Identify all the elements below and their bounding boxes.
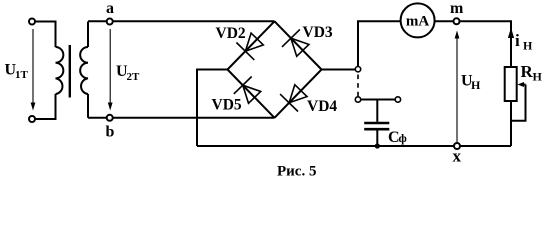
transformer core [69, 45, 71, 98]
U1T arrow [32, 29, 34, 104]
secondary winding arcs [80, 47, 88, 94]
node x [454, 143, 460, 149]
svg-text:1T: 1T [15, 69, 29, 81]
terminal circle plus node [355, 67, 360, 72]
svg-text:2T: 2T [127, 71, 141, 83]
bridge diagonal L-B [228, 70, 275, 118]
svg-text:VD5: VD5 [212, 96, 242, 113]
ammeter mA [401, 3, 435, 37]
svg-text:Н: Н [523, 39, 533, 53]
capacitor CF top lead [376, 100, 378, 122]
terminal circle cap right [395, 97, 400, 102]
diode VD4 [280, 85, 307, 112]
svg-text:VD2: VD2 [216, 25, 246, 42]
wire primary top [35, 22, 56, 48]
node m [454, 18, 460, 24]
wire bridge left vertex to bottom bus [197, 70, 228, 147]
terminal circle cap left [355, 97, 360, 102]
terminal circle bottom-left [29, 116, 35, 122]
diode VD3 [282, 29, 309, 56]
svg-text:a: a [106, 0, 114, 17]
svg-text:ф: ф [399, 131, 407, 145]
bottom bus wire [197, 145, 511, 147]
svg-text:VD4: VD4 [307, 98, 337, 115]
node a [107, 19, 113, 25]
diode VD2 [236, 33, 263, 60]
svg-text:m: m [450, 0, 464, 17]
junction dot [375, 143, 380, 148]
bridge diagonal T-L [228, 21, 275, 69]
wire plus node up to top rail [358, 21, 401, 66]
wire meter to node m to right rail [435, 21, 511, 67]
node b [107, 115, 113, 121]
capacitor CF bottom lead [376, 130, 378, 146]
iH arrowhead [508, 28, 514, 39]
wire bridge right vertex to plus node [322, 69, 356, 71]
svg-text:x: x [453, 147, 462, 166]
svg-text:Н: Н [471, 78, 481, 92]
wire resistor bottom to bus [510, 101, 512, 146]
bridge diagonal T-R [275, 21, 322, 69]
svg-text:VD3: VD3 [303, 24, 333, 41]
capacitor CF plates [364, 122, 389, 125]
svg-text:Рис. 5: Рис. 5 [277, 164, 316, 180]
primary winding left arcs [56, 47, 64, 94]
RH wiper arrow [520, 84, 526, 86]
svg-text:Н: Н [533, 70, 543, 84]
svg-text:i: i [515, 31, 520, 50]
wire top rail a to bridge top vertex [88, 20, 275, 22]
bridge diagonal B-R [275, 70, 322, 118]
UH arrow [456, 36, 458, 143]
wire b to bridge bottom vertex [88, 117, 275, 119]
U2T arrow [109, 29, 111, 104]
svg-text:b: b [106, 123, 115, 140]
wire cap terminal link [361, 99, 396, 101]
secondary winding wire top [87, 22, 89, 48]
diode VD5 [234, 77, 261, 104]
resistor RH body [505, 67, 517, 101]
dashed link to capacitor terminal [357, 75, 359, 97]
RH wiper return wire [511, 85, 526, 121]
secondary winding wire bottom [87, 94, 89, 118]
terminal circle top-left [29, 19, 35, 25]
svg-text:mA: mA [406, 14, 429, 30]
wire primary bottom [35, 94, 56, 119]
